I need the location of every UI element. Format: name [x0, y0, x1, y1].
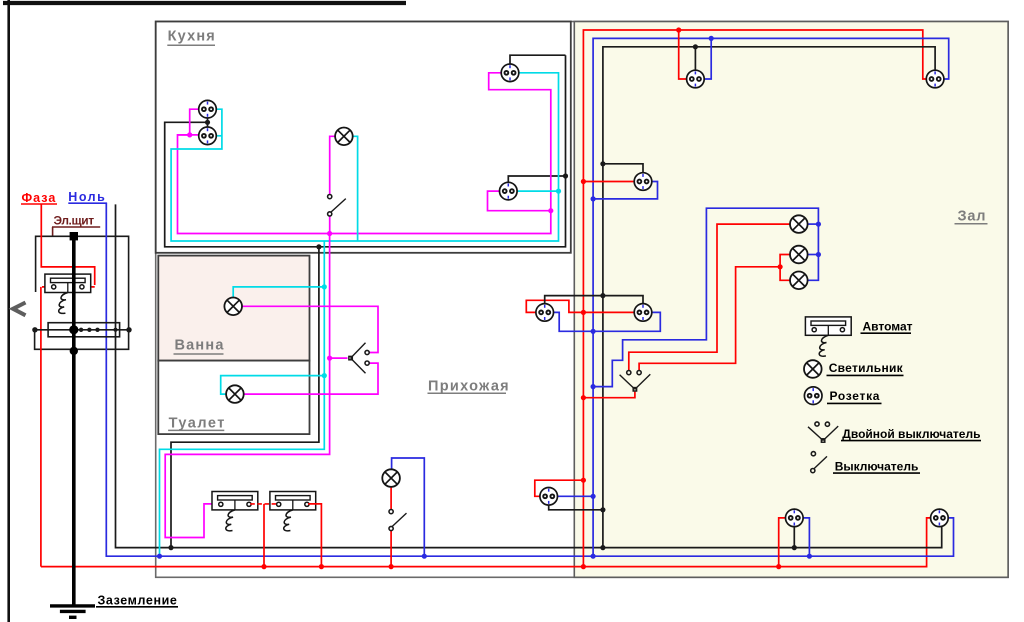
junction blue зал left — [591, 196, 596, 201]
lamp EL4 прихожая — [382, 469, 400, 487]
wire red hallway bottom socket loop — [535, 480, 584, 496]
wire red riser Зал lower — [582, 182, 584, 567]
lamp EL2 ванна — [224, 298, 242, 316]
label Двойной выключатель — [841, 427, 981, 441]
label Туалет — [168, 415, 226, 431]
wire red зал switch line 2 — [639, 267, 780, 371]
junction black riser bus — [600, 545, 605, 550]
wire red УЗО 2 out — [308, 504, 321, 567]
label Прихожая — [428, 379, 510, 395]
УЗО box 2 — [270, 492, 316, 531]
wire black socket A to B link — [207, 118, 209, 127]
junction blue hallway bottom — [591, 494, 596, 499]
label Эл.щит — [52, 213, 100, 236]
socket XS6 зал top-right — [926, 70, 944, 88]
socket XS7 зал left — [634, 173, 652, 191]
junction blue зал bottom 1 — [807, 554, 812, 559]
junction red hallway top — [581, 310, 586, 315]
legend Двойной выключатель symbol — [808, 422, 838, 442]
main ground conductor — [69, 232, 78, 606]
junction blue hallway lamp — [422, 554, 427, 559]
junction cyan kitchen D — [556, 189, 561, 194]
junction magenta riser top — [327, 231, 332, 236]
wire blue socket зал left — [593, 182, 657, 199]
label Ванна — [174, 337, 225, 354]
junction blue зал lamps feed — [591, 384, 596, 389]
label Автомат — [861, 320, 913, 334]
watermark chevron — [13, 303, 26, 316]
svg-text:Зал: Зал — [958, 208, 987, 224]
legend Светильник symbol — [804, 360, 822, 378]
wire black kitchen feed bus — [165, 55, 566, 247]
junction black top bus — [693, 44, 698, 49]
wire red зал switch common — [583, 392, 635, 398]
wire black socket C drop — [510, 55, 566, 64]
wire magenta socket B stub — [178, 134, 199, 136]
junction magenta kitchen A-B — [187, 132, 192, 137]
socket XS12 зал bottom 2 — [931, 509, 949, 527]
junction cyan to neutral bus — [157, 554, 162, 559]
room Кухня — [156, 22, 571, 253]
wire cyan socket B stub — [216, 135, 222, 137]
junction red riser bus — [581, 564, 586, 569]
label Фаза — [21, 191, 57, 205]
wire ноль (blue) riser and bottom bus — [106, 203, 953, 556]
room Ванна — [158, 256, 309, 361]
электрощит box — [35, 236, 129, 349]
wire blue зал lamps loop — [593, 208, 818, 386]
wire фаза (red) from label into breaker — [41, 204, 95, 567]
wire red hallway switch to bus — [390, 531, 392, 567]
switch SA1 кухня — [328, 195, 346, 216]
socket XS2 кухня — [199, 127, 217, 145]
wire magenta dash into УЗО1 — [211, 503, 219, 505]
junction black kitchen D — [563, 173, 568, 178]
junction red зал lamps — [778, 264, 783, 269]
wire red top bus Зал — [583, 30, 926, 182]
junction red hallway bottom — [581, 478, 586, 483]
svg-text:Эл.щит: Эл.щит — [54, 213, 95, 227]
wire magenta switch feed stub — [330, 357, 348, 359]
svg-text:Выключатель: Выключатель — [835, 459, 919, 473]
wire blue зал bottom socket 1 — [803, 518, 809, 556]
socket XS9 зал middle — [634, 304, 652, 322]
wire black drop socket зал top-middle — [694, 47, 696, 71]
wire blue hallway lamp loop — [392, 458, 425, 556]
wire black hallway top socket — [545, 296, 643, 304]
wire black top bus Зал — [603, 47, 935, 164]
junction red зал switch common — [581, 395, 586, 400]
wire red hallway lamp to switch — [390, 487, 392, 509]
wire blue зал lamp 2 stub — [808, 254, 819, 256]
junction black riser top — [316, 244, 321, 249]
wire red УЗО drop 1 — [263, 504, 265, 567]
junction red зал left — [581, 179, 586, 184]
junction black зал bottom 1 — [792, 545, 797, 550]
junction black kitchen A — [205, 120, 210, 125]
wire red drop socket зал top-middle — [679, 30, 687, 79]
junction red top bus — [676, 27, 681, 32]
wire magenta kitchen switch to bus — [329, 216, 331, 234]
junction blue riser bus — [591, 554, 596, 559]
lamp EL5 зал — [790, 215, 808, 233]
socket XS10 прихожая bottom — [540, 488, 558, 506]
room Зал — [574, 22, 1008, 578]
wire cyan riser to bath rooms — [160, 241, 325, 556]
wire PE (black) from bus bar to bottom bus — [116, 204, 942, 547]
switch SA4 двойной зал — [620, 371, 651, 392]
legend Автомат symbol — [805, 317, 851, 356]
wire blue top bus Зал — [593, 38, 949, 199]
junction magenta switch feed — [327, 356, 332, 361]
junction red УЗО 2 — [319, 564, 324, 569]
wire magenta kitchen lamp drop to switch — [330, 136, 336, 194]
label Кухня — [167, 28, 216, 45]
wire blue hallway bottom socket — [558, 495, 594, 497]
lamp EL6 зал — [790, 246, 808, 264]
wire cyan bath lamp branch — [233, 287, 324, 298]
junction blue hallway top — [591, 329, 596, 334]
wire blue drop socket зал top-middle — [704, 38, 711, 79]
lamp EL7 зал — [790, 272, 808, 290]
wire black hallway bottom socket — [549, 505, 603, 510]
svg-text:Розетка: Розетка — [830, 389, 881, 403]
wire red hallway top socket loop — [526, 300, 634, 312]
svg-text:Кухня: Кухня — [168, 28, 216, 44]
wire blue riser Зал lower — [592, 199, 594, 556]
label Розетка — [827, 389, 882, 404]
junction cyan bath — [322, 284, 327, 289]
wire cyan socket D stub — [517, 190, 558, 192]
junction blue зал lamp 2 — [816, 252, 821, 257]
junction black hallway bottom — [600, 507, 605, 512]
ground symbol — [50, 606, 95, 617]
wire red socket зал left stub — [583, 181, 634, 183]
svg-text:Прихожая: Прихожая — [428, 379, 510, 395]
socket XS1 кухня — [199, 100, 217, 118]
wire black зал bottom socket 1 — [793, 527, 795, 548]
wire фаза (red) bottom bus — [41, 518, 931, 567]
junction blue top bus — [709, 36, 714, 41]
label Зал — [955, 208, 988, 224]
legend Розетка symbol — [804, 387, 822, 405]
УЗО box 1 — [212, 492, 258, 531]
wire cyan kitchen bus — [171, 73, 558, 241]
junction red hallway switch — [389, 564, 394, 569]
wire blue зал lamp 1 stub — [808, 223, 819, 225]
switch SA3 прихожая — [389, 510, 407, 531]
switch SA2 двойной прихожая — [349, 343, 369, 373]
socket XS11 зал bottom 1 — [786, 509, 804, 527]
svg-text:Туалет: Туалет — [169, 415, 226, 431]
wire black socket D link — [508, 176, 565, 183]
svg-text:Фаза: Фаза — [22, 191, 57, 205]
wire red зал lamps 2-3 link — [780, 255, 790, 281]
legend Выключатель symbol — [811, 452, 827, 473]
wire magenta riser to УЗО — [165, 234, 329, 538]
socket XS5 зал top-middle — [687, 70, 705, 88]
wire red зал bottom socket 1 — [779, 518, 786, 567]
wire black riser to hallway — [171, 247, 319, 548]
lamp EL1 кухня — [335, 128, 353, 146]
wire cyan toilet lamp branch — [221, 376, 325, 395]
wire black socket зал left — [603, 164, 643, 173]
label Светильник — [827, 361, 904, 376]
room Туалет — [158, 361, 309, 435]
wire cyan kitchen lamp drop — [353, 136, 358, 241]
wire magenta socket D loop — [488, 191, 551, 211]
junction red зал bottom 1 — [776, 564, 781, 569]
wire black riser Зал lower — [602, 164, 604, 548]
apartment outline — [156, 22, 1008, 578]
wire red between УЗО boxes — [250, 503, 276, 505]
lamp EL3 туалет — [226, 385, 244, 403]
breaker QF1 in panel — [45, 274, 91, 313]
socket XS8 прихожая — [536, 304, 554, 322]
svg-text:Двойной выключатель: Двойной выключатель — [842, 427, 980, 441]
ground bus bar in panel — [32, 323, 132, 337]
page frame left line — [7, 0, 10, 622]
svg-text:Заземление: Заземление — [98, 593, 178, 607]
wire magenta kitchen bus — [178, 73, 551, 234]
junction black riser bottom — [168, 545, 173, 550]
junction cyan toilet — [322, 373, 327, 378]
junction black hallway top — [600, 293, 605, 298]
svg-text:Ванна: Ванна — [175, 337, 225, 353]
svg-text:Автомат: Автомат — [863, 320, 913, 334]
socket XS4 кухня — [500, 182, 518, 200]
svg-text:Светильник: Светильник — [829, 361, 904, 375]
socket XS3 кухня — [501, 64, 519, 82]
wire magenta bath lamp to switch — [242, 306, 378, 352]
page frame top line — [3, 1, 406, 5]
wire magenta toilet lamp to switch — [244, 363, 378, 394]
junction black зал left — [600, 161, 605, 166]
label Выключатель — [833, 459, 920, 473]
junction red УЗО drop 1 — [261, 564, 266, 569]
wire blue hallway top socket — [553, 312, 660, 331]
junction blue зал lamp 1 — [816, 222, 821, 227]
label Заземление — [96, 593, 178, 607]
label Ноль — [68, 190, 107, 204]
junction magenta kitchen D — [548, 208, 553, 213]
wire red зал switch line 1 — [629, 224, 790, 370]
svg-text:Ноль: Ноль — [68, 190, 106, 204]
